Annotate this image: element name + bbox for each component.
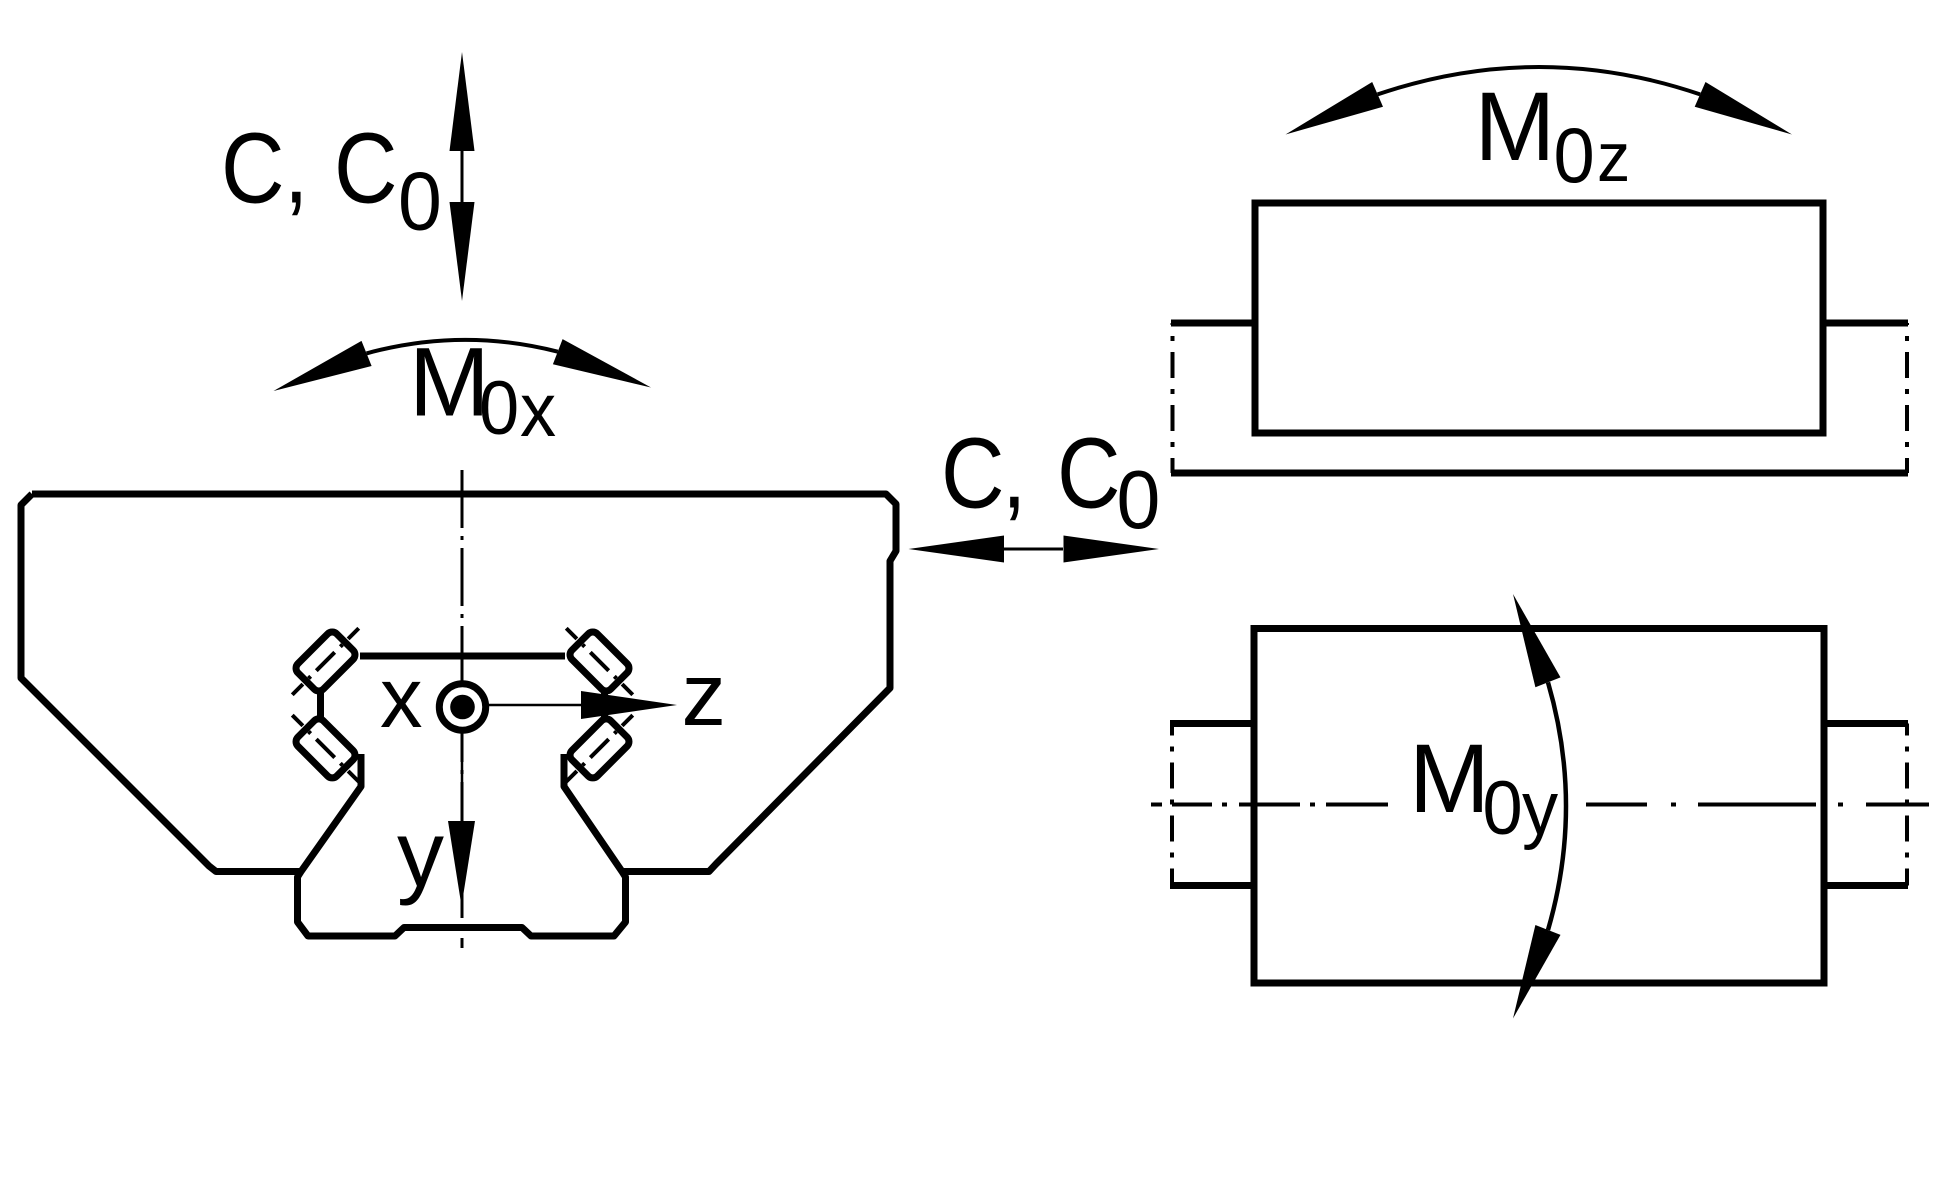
svg-text:z: z (1597, 118, 1630, 196)
svg-text:z: z (682, 644, 727, 744)
C,C0 horizontal double arrow (909, 536, 1005, 563)
svg-text:x: x (380, 651, 423, 746)
rail left end centerline (1170, 724, 1174, 886)
svg-text:0: 0 (398, 156, 442, 248)
M0z arc (1378, 67, 1701, 94)
svg-text:M: M (409, 328, 490, 437)
svg-text:C: C (334, 112, 398, 223)
roller lower-right (554, 702, 646, 794)
svg-text:0: 0 (479, 365, 519, 450)
svg-text:M: M (1475, 72, 1556, 181)
svg-text:y: y (397, 801, 444, 906)
C,C0 vertical double arrow (450, 52, 475, 151)
svg-text:,: , (284, 112, 308, 223)
rail edge top view, right segment (1822, 320, 1908, 327)
svg-text:y: y (1522, 765, 1558, 850)
carriage outline left half (21, 494, 301, 872)
rail head right side edge (601, 693, 608, 717)
carriage rectangle top view (1255, 203, 1823, 433)
svg-text:M: M (1409, 724, 1490, 833)
rail right end centerline (1905, 724, 1909, 886)
rail waist and base (298, 754, 626, 936)
rail head top edge (360, 653, 565, 660)
roller upper-right (554, 616, 646, 708)
svg-text:,: , (1002, 417, 1026, 528)
rail edge top view, left segment (1171, 320, 1257, 327)
roller lower-left (280, 702, 372, 794)
carriage rectangle side view (1254, 629, 1824, 984)
rail left stub bottom edge (1170, 882, 1254, 889)
svg-text:C: C (221, 112, 285, 223)
M0y moment arc (1548, 682, 1566, 930)
vertical centerline of carriage cross-section (461, 470, 464, 948)
M0x moment arc (367, 340, 558, 354)
rail axis centerline (1151, 803, 1162, 807)
carriage outline top and right with notch (32, 494, 896, 872)
svg-text:x: x (520, 367, 556, 452)
roller upper-left (280, 616, 372, 708)
rail right end centerline (1905, 323, 1909, 473)
svg-text:0: 0 (1117, 454, 1161, 546)
svg-text:C: C (1057, 417, 1121, 528)
svg-text:0: 0 (1554, 112, 1595, 199)
y axis arrow (461, 730, 464, 825)
z axis arrow (486, 704, 585, 707)
origin symbol: x axis out of plane (439, 684, 485, 730)
rail far edge top view (1171, 470, 1908, 477)
rail left stub top edge (1170, 720, 1254, 727)
svg-text:0: 0 (1483, 765, 1523, 850)
rail right stub bottom edge (1824, 882, 1908, 889)
rail head left side edge (317, 693, 324, 717)
rail right stub top edge (1824, 720, 1908, 727)
svg-text:C: C (941, 417, 1005, 528)
rail left end centerline (1171, 323, 1175, 473)
